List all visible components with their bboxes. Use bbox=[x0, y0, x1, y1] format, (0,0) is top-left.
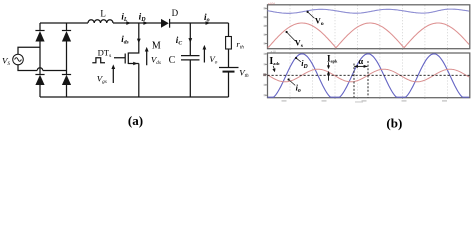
svg-text:(a): (a) bbox=[128, 113, 143, 128]
svg-text:x104: x104 bbox=[268, 1, 275, 5]
svg-text:D: D bbox=[172, 8, 179, 18]
svg-text:α: α bbox=[358, 56, 363, 66]
svg-text:(b): (b) bbox=[386, 115, 402, 130]
svg-text:M: M bbox=[152, 40, 161, 51]
svg-text:L: L bbox=[100, 8, 106, 18]
svg-text:x10: x10 bbox=[271, 50, 277, 54]
svg-text:C: C bbox=[169, 55, 176, 66]
